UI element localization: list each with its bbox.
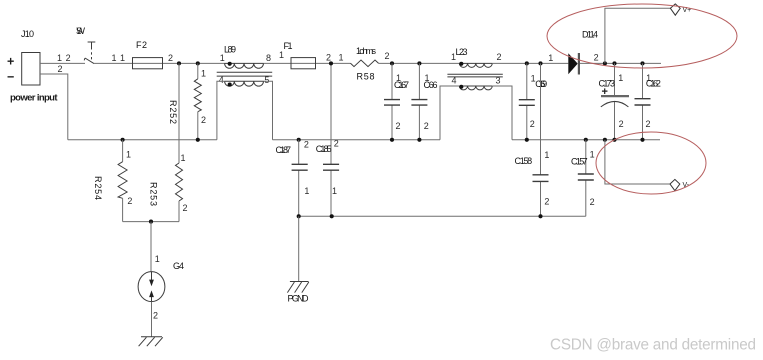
svg-text:2: 2 bbox=[127, 196, 132, 206]
connector J10 body bbox=[22, 53, 40, 86]
svg-text:L23: L23 bbox=[456, 47, 468, 57]
C157 labels bbox=[571, 150, 595, 207]
wire R252 upper stub bbox=[197, 63, 199, 78]
G4 pin 1 label bbox=[155, 254, 160, 264]
junction node C167 bottom bbox=[390, 138, 394, 142]
svg-text:PGND: PGND bbox=[288, 294, 310, 304]
D114 pin labels bbox=[548, 53, 598, 63]
wire V- drop and run to terminal bbox=[605, 140, 670, 184]
junction node C158 top bbox=[538, 61, 542, 65]
wire resistor bottom rail bbox=[123, 221, 179, 223]
junction node C173 top bbox=[612, 61, 616, 65]
L89 core lines bbox=[217, 72, 273, 76]
resistor R252 zigzag bbox=[194, 79, 201, 112]
svg-text:4: 4 bbox=[219, 75, 224, 85]
svg-text:1: 1 bbox=[451, 52, 456, 62]
fuse F2 body bbox=[133, 58, 163, 69]
F1 pin 2 and R58 pin 1 labels bbox=[326, 53, 344, 63]
junction node C158 bottom bbox=[538, 214, 542, 218]
svg-text:1: 1 bbox=[544, 150, 549, 160]
wire L89 pin5 drop to middle rail bbox=[264, 81, 273, 140]
junction node C185 top bbox=[329, 61, 333, 65]
C158 labels bbox=[515, 150, 550, 207]
L23 bottom phase dot bbox=[459, 85, 463, 89]
svg-text:2: 2 bbox=[334, 139, 339, 149]
junction node C66 top bbox=[417, 61, 421, 65]
svg-text:D114: D114 bbox=[582, 30, 598, 40]
svg-text:4: 4 bbox=[452, 76, 457, 86]
junction node C187 top bbox=[297, 138, 301, 142]
junction node R252 top bbox=[196, 61, 200, 65]
J10 pin 1 and wire 2 labels bbox=[57, 53, 71, 63]
fuse F2 label bbox=[136, 40, 147, 50]
L89 top winding bbox=[225, 63, 264, 68]
J10 pin 2 label bbox=[58, 64, 63, 74]
wire R58 to L23 bbox=[379, 62, 460, 64]
svg-text:2: 2 bbox=[590, 197, 595, 207]
C167 labels bbox=[394, 73, 409, 131]
R254 pin labels bbox=[126, 150, 132, 206]
svg-text:1: 1 bbox=[201, 68, 206, 78]
wire L89 pin4 drop to left rail bbox=[217, 81, 225, 140]
svg-text:R253: R253 bbox=[149, 182, 159, 206]
svg-text:C167: C167 bbox=[394, 80, 409, 90]
L23 top phase dot bbox=[459, 62, 463, 66]
svg-text:2: 2 bbox=[646, 119, 651, 129]
wire middle return rail bbox=[273, 139, 441, 141]
L23 core lines bbox=[447, 74, 502, 77]
svg-text:8: 8 bbox=[266, 53, 271, 63]
C173 labels bbox=[599, 73, 624, 129]
V- net label bbox=[683, 182, 690, 189]
svg-text:2: 2 bbox=[168, 53, 173, 63]
svg-text:J10: J10 bbox=[21, 29, 34, 39]
F1 pin 1 label bbox=[279, 50, 284, 60]
watermark text bbox=[550, 337, 756, 354]
switch SW label bbox=[76, 26, 86, 36]
junction node C157 top bbox=[584, 138, 588, 142]
net label power input bbox=[10, 93, 58, 104]
svg-text:F2: F2 bbox=[136, 40, 147, 50]
svg-text:2: 2 bbox=[153, 311, 158, 321]
svg-text:1: 1 bbox=[304, 186, 309, 196]
L23 bottom winding bbox=[459, 86, 492, 90]
inductor L23 label bbox=[456, 47, 468, 57]
L23 top winding bbox=[459, 63, 492, 67]
resistor R254 label rotated bbox=[93, 176, 103, 200]
junction node C162 top bbox=[640, 61, 644, 65]
wire L23 to D114 bbox=[492, 62, 568, 64]
svg-text:2: 2 bbox=[594, 53, 599, 63]
L89 top phase dot bbox=[228, 62, 232, 66]
PGND net label bbox=[288, 294, 310, 304]
svg-text:1: 1 bbox=[220, 53, 225, 63]
wire D114 cathode to line end bbox=[580, 62, 661, 64]
switch SW blade and actuator bbox=[84, 42, 95, 64]
C169 labels bbox=[530, 73, 548, 129]
svg-text:1: 1 bbox=[618, 73, 623, 83]
svg-text:1: 1 bbox=[57, 53, 62, 63]
svg-text:2: 2 bbox=[497, 52, 502, 62]
svg-text:1: 1 bbox=[332, 186, 337, 196]
junction node G4 top bbox=[149, 220, 153, 224]
svg-text:C185: C185 bbox=[316, 144, 332, 154]
svg-text:1: 1 bbox=[339, 53, 344, 63]
capacitor C162 bbox=[635, 63, 651, 139]
wire left return rail bbox=[68, 139, 217, 141]
svg-text:C158: C158 bbox=[515, 156, 533, 166]
svg-text:1: 1 bbox=[181, 153, 186, 163]
svg-text:C187: C187 bbox=[276, 145, 292, 155]
C187 labels bbox=[276, 140, 310, 196]
capacitor C169 bbox=[519, 63, 535, 139]
svg-text:R58: R58 bbox=[357, 72, 375, 82]
C66 labels bbox=[424, 73, 438, 131]
svg-text:1: 1 bbox=[112, 53, 117, 63]
wire L23 pin4 drop to middle rail bbox=[440, 86, 459, 140]
svg-text:2: 2 bbox=[424, 121, 429, 131]
fuse F1 body bbox=[291, 58, 316, 69]
junction node V+ riser bbox=[603, 61, 607, 65]
capacitor C158 long wire from top bbox=[533, 63, 549, 216]
wire J10 pin1 to switch bbox=[40, 62, 85, 64]
junction node PGND rail start bbox=[297, 214, 301, 218]
svg-text:CSDN @brave and determined: CSDN @brave and determined bbox=[550, 337, 756, 354]
F2 pin 2 label bbox=[168, 53, 173, 63]
svg-text:5: 5 bbox=[264, 75, 269, 85]
wire L89 to F1 to R58 bbox=[264, 62, 351, 64]
L89 pin number labels 1 8 4 5 bbox=[219, 53, 271, 85]
fuse F1 label bbox=[284, 41, 293, 51]
junction node R254 top bbox=[121, 138, 125, 142]
wire G4 to ground bbox=[151, 302, 153, 337]
junction node C162 bottom bbox=[640, 138, 644, 142]
R58 pin 2 label bbox=[385, 51, 390, 61]
svg-text:2: 2 bbox=[183, 203, 188, 213]
current source G4 label bbox=[173, 261, 184, 271]
svg-text:2: 2 bbox=[66, 53, 71, 63]
L89 bottom winding bbox=[225, 81, 264, 86]
V+ net label bbox=[683, 7, 692, 14]
junction node V- drop bbox=[603, 138, 607, 142]
wire L23 pin3 drop to right rail bbox=[492, 86, 512, 140]
capacitor C187 bbox=[292, 140, 308, 217]
junction node C173 bottom bbox=[612, 138, 616, 142]
svg-text:R254: R254 bbox=[93, 176, 103, 200]
svg-text:1: 1 bbox=[120, 53, 125, 63]
junction node R252 bottom bbox=[196, 138, 200, 142]
inductor L89 label bbox=[224, 45, 236, 55]
svg-text:−: − bbox=[7, 70, 14, 84]
ground symbol PGND bbox=[287, 282, 308, 293]
svg-text:2: 2 bbox=[326, 53, 331, 63]
C185 labels bbox=[316, 139, 339, 196]
capacitor C66 bbox=[411, 63, 427, 139]
diode D114 label bbox=[582, 30, 598, 40]
output terminal V- diamond bbox=[670, 179, 680, 190]
R58 reference label bbox=[357, 72, 375, 82]
junction node C66 bottom bbox=[417, 138, 421, 142]
R252 pin labels bbox=[201, 68, 206, 125]
resistor R58 zigzag bbox=[351, 60, 379, 67]
svg-text:1: 1 bbox=[126, 150, 131, 160]
wire J10 pin2 down to left rail bbox=[40, 74, 68, 140]
svg-text:F1: F1 bbox=[284, 41, 293, 51]
svg-text:power input: power input bbox=[10, 93, 58, 104]
J10 minus polarity mark bbox=[7, 70, 14, 84]
annotation ellipse bottom right bbox=[596, 132, 706, 194]
svg-text:1: 1 bbox=[279, 50, 284, 60]
resistor R252 label rotated bbox=[168, 100, 178, 124]
L89 bottom phase dot bbox=[228, 83, 232, 87]
svg-text:+: + bbox=[7, 55, 14, 69]
svg-text:C66: C66 bbox=[424, 80, 438, 90]
svg-text:SW: SW bbox=[76, 26, 86, 36]
svg-text:C157: C157 bbox=[571, 157, 588, 167]
R58 value label 1ohms bbox=[356, 46, 377, 56]
svg-text:2: 2 bbox=[304, 140, 309, 150]
svg-text:2: 2 bbox=[530, 119, 535, 129]
C162 labels bbox=[646, 73, 661, 129]
svg-text:L89: L89 bbox=[224, 45, 236, 55]
junction node C185 bottom bbox=[330, 214, 334, 218]
J10 plus polarity mark bbox=[7, 55, 14, 69]
junction node F2 output to R253 bbox=[177, 61, 181, 65]
wire V+ riser and top run bbox=[605, 8, 671, 63]
current source G4 circle with arrows bbox=[138, 272, 165, 302]
resistor R254 chain bbox=[118, 140, 127, 222]
capacitor C157 bbox=[578, 140, 594, 217]
resistor R253 label rotated bbox=[149, 182, 159, 206]
switch pin 1 / fuse pin 1 labels bbox=[112, 53, 126, 63]
svg-text:C173: C173 bbox=[599, 79, 616, 89]
svg-text:1: 1 bbox=[590, 150, 595, 160]
junction node C169 top bbox=[525, 61, 529, 65]
junction node C167 top bbox=[390, 61, 394, 65]
wire C187 to PGND bbox=[298, 216, 300, 281]
wire right return rail bbox=[512, 139, 660, 141]
svg-text:2: 2 bbox=[619, 119, 624, 129]
svg-text:2: 2 bbox=[385, 51, 390, 61]
R253 pin labels bbox=[181, 153, 188, 213]
svg-text:G4: G4 bbox=[173, 261, 184, 271]
svg-text:1ohms: 1ohms bbox=[356, 46, 377, 56]
connector J10 reference label bbox=[21, 29, 34, 39]
svg-text:C169: C169 bbox=[535, 79, 547, 89]
svg-text:3: 3 bbox=[496, 76, 501, 86]
C173 plus mark bbox=[602, 86, 608, 98]
capacitor C185 long wire from top bbox=[323, 63, 339, 216]
ground symbol below G4 bbox=[139, 337, 163, 346]
diode D114 triangle and cathode bar bbox=[568, 53, 579, 75]
svg-text:2: 2 bbox=[58, 64, 63, 74]
svg-text:C162: C162 bbox=[646, 79, 661, 89]
wire R253 upper segment bbox=[178, 63, 180, 163]
resistor R253 zigzag bbox=[176, 163, 183, 201]
svg-text:2: 2 bbox=[544, 196, 549, 206]
svg-text:2: 2 bbox=[396, 121, 401, 131]
junction node C169 bottom bbox=[525, 138, 529, 142]
svg-text:R252: R252 bbox=[168, 100, 178, 124]
capacitor C173 polarized bbox=[601, 63, 629, 139]
wire R252 lower segment bbox=[197, 112, 199, 140]
svg-text:2: 2 bbox=[201, 115, 206, 125]
wire switch to L89 through F2 bbox=[94, 62, 225, 64]
svg-text:1: 1 bbox=[155, 254, 160, 264]
wire bottom ground rail bbox=[299, 215, 586, 217]
annotation ellipse top right bbox=[547, 4, 737, 68]
L23 pin number labels 1 2 4 3 bbox=[451, 52, 502, 86]
output terminal V+ diamond bbox=[670, 4, 680, 15]
svg-text:1: 1 bbox=[548, 53, 553, 63]
G4 pin 2 label bbox=[153, 311, 158, 321]
capacitor C167 bbox=[384, 63, 400, 139]
wire down to G4 bbox=[150, 222, 152, 272]
wire R253 lower segment bbox=[178, 201, 180, 222]
